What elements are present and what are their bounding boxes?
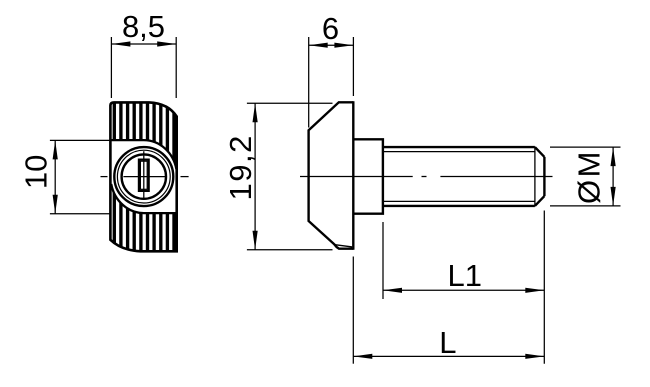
svg-text:6: 6	[322, 11, 339, 46]
serration boundary upper	[110, 140, 176, 169]
serration hatch lines	[114, 99, 174, 255]
svg-text:19,2: 19,2	[223, 134, 258, 200]
dimension 10	[50, 140, 111, 213]
centerline horizontal left view	[101, 176, 189, 178]
thread end face	[543, 157, 545, 196]
head profile	[309, 102, 354, 248]
dimension 8,5	[111, 37, 176, 98]
dimension 6	[309, 37, 354, 128]
thread chamfer edge	[534, 147, 536, 206]
serration boundary lower	[111, 184, 177, 213]
svg-text:L1: L1	[447, 258, 481, 293]
centerline vertical left view	[143, 151, 145, 199]
centerline horizontal side view	[300, 176, 553, 178]
dimension ØM	[550, 147, 621, 206]
collar	[353, 139, 383, 213]
head outline	[110, 102, 176, 251]
head right face	[352, 101, 354, 250]
head serration edge (sliver)	[335, 245, 352, 247]
svg-text:8,5: 8,5	[122, 9, 165, 44]
svg-text:ØM: ØM	[572, 149, 607, 204]
screw slot inner	[140, 161, 147, 189]
dimension 19,2	[247, 103, 333, 250]
dimension L	[353, 257, 544, 364]
svg-text:L: L	[439, 325, 456, 360]
shank outer lines	[383, 147, 535, 206]
boss inner circle	[122, 154, 166, 198]
svg-text:10: 10	[19, 155, 54, 189]
chamfer bottom diagonal	[535, 196, 545, 206]
boss middle circle	[117, 150, 170, 203]
boss outer circle	[114, 147, 173, 206]
chamfer top diagonal	[535, 147, 545, 157]
thread root lines	[383, 152, 535, 202]
screw slot outer	[139, 160, 149, 191]
dimension L1	[383, 211, 544, 364]
